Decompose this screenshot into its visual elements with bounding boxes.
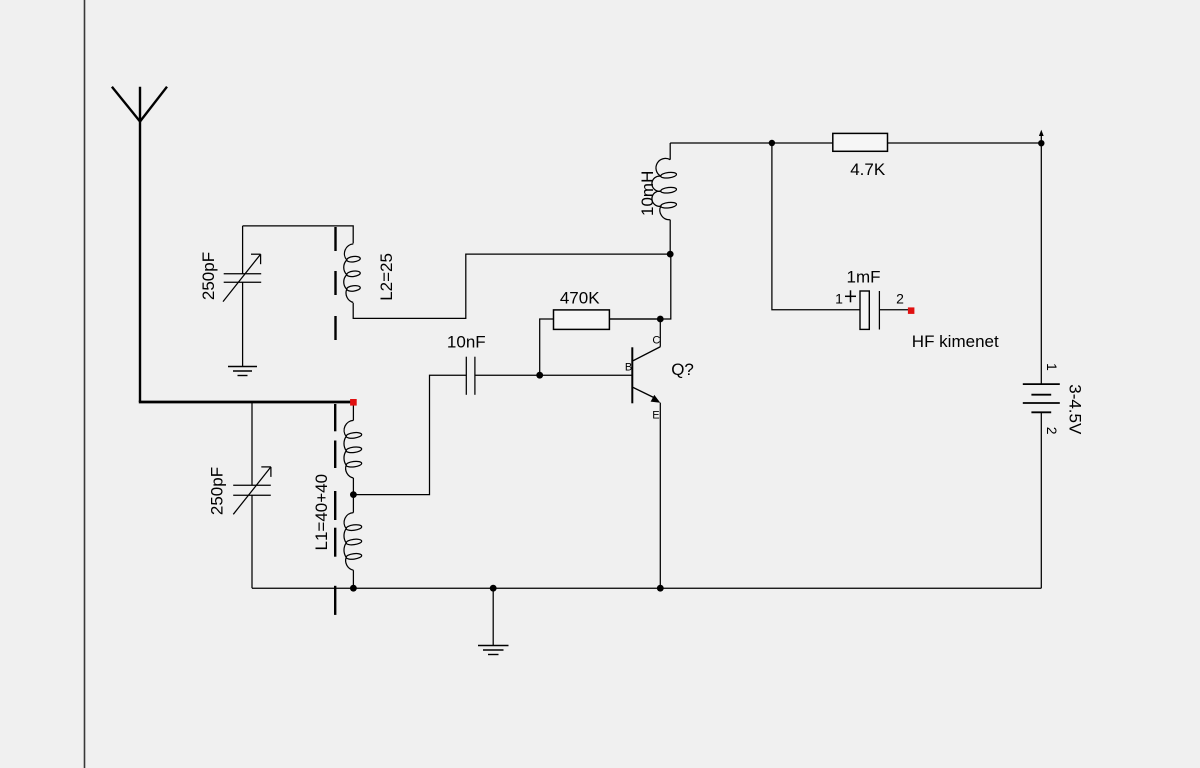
svg-text:4.7K: 4.7K [850, 160, 886, 179]
svg-text:L1=40+40: L1=40+40 [312, 474, 331, 551]
svg-text:2: 2 [1044, 427, 1060, 435]
svg-text:HF kimenet: HF kimenet [912, 332, 999, 351]
svg-text:L2=25: L2=25 [377, 253, 396, 301]
svg-text:Q?: Q? [671, 360, 694, 379]
svg-text:250pF: 250pF [208, 467, 227, 515]
svg-text:250pF: 250pF [199, 252, 218, 300]
svg-text:1: 1 [835, 291, 843, 307]
svg-text:470K: 470K [560, 289, 600, 308]
svg-text:1: 1 [1044, 363, 1060, 371]
svg-text:10nF: 10nF [447, 333, 486, 352]
svg-text:1mF: 1mF [847, 268, 881, 287]
svg-text:3-4.5V: 3-4.5V [1066, 384, 1085, 435]
svg-text:B: B [625, 362, 632, 374]
svg-text:E: E [652, 409, 659, 421]
svg-text:2: 2 [896, 291, 904, 307]
svg-text:C: C [652, 335, 660, 347]
svg-text:10mH: 10mH [638, 171, 657, 216]
